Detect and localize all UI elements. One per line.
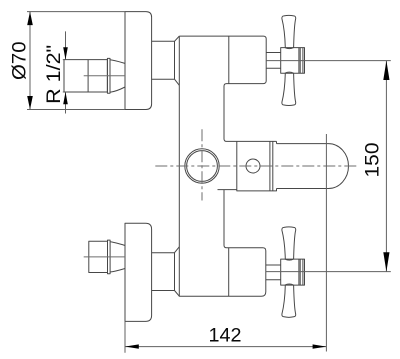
union tube bottom (behind flange) xyxy=(152,247,180,296)
hub spoke root arcs top xyxy=(285,48,294,74)
eccentric cone bottom xyxy=(110,242,125,246)
dimension 150 line xyxy=(385,61,387,272)
extension line top (O70, lower) xyxy=(27,109,125,111)
extension line 150 top xyxy=(266,60,391,62)
cross handle bottom, upper spoke xyxy=(282,227,296,259)
arrow 142 left xyxy=(125,344,139,348)
extension line 150 bottom xyxy=(266,271,391,273)
extension line top (O70, upper) xyxy=(27,11,125,13)
threaded nipple bottom xyxy=(89,241,108,272)
svg-text:Ø70: Ø70 xyxy=(9,41,31,80)
hub groove lines bottom xyxy=(299,259,303,285)
extension line 142 right xyxy=(325,134,327,352)
arrow 142 right xyxy=(313,344,327,348)
ball joint outer circle xyxy=(185,149,219,183)
spout barrel with domed end xyxy=(277,144,349,189)
arrow 150 up xyxy=(383,61,389,80)
nipple collar ring bottom xyxy=(108,240,111,274)
svg-text:142: 142 xyxy=(209,325,242,347)
dimension O70 line xyxy=(29,12,31,110)
arrow 150 down xyxy=(383,252,389,271)
main body outline xyxy=(179,36,276,296)
wall flange top (escutcheon, side view) xyxy=(125,12,152,110)
ball joint vertical centerline xyxy=(201,129,203,200)
extension line 142 left xyxy=(124,321,126,352)
svg-text:150: 150 xyxy=(362,142,384,177)
handle hub top xyxy=(281,48,305,74)
hub spoke root arcs bottom xyxy=(285,259,294,285)
cross handle top, lower spoke xyxy=(282,73,296,105)
ball joint inner circle xyxy=(187,151,218,182)
spout diverter block xyxy=(218,141,277,191)
body division line lower xyxy=(228,248,230,296)
nipple centerline bottom xyxy=(84,256,125,258)
valve stem bottom xyxy=(266,265,281,280)
nipple centerline top xyxy=(84,75,125,77)
cross handle bottom, lower spoke xyxy=(282,285,296,317)
dimension R1/2 lines xyxy=(63,31,66,113)
diverter small circle xyxy=(246,159,260,173)
nipple collar ring top xyxy=(107,58,110,93)
eccentric cone top xyxy=(110,60,125,64)
union tube top (behind flange) xyxy=(152,36,180,85)
threaded nipple R1/2 top xyxy=(64,60,107,92)
handle hub bottom xyxy=(281,259,305,285)
wall flange bottom xyxy=(125,223,152,321)
arrow R1/2 down xyxy=(63,47,68,59)
arrow R1/2 up xyxy=(63,92,68,104)
valve stem top xyxy=(266,53,281,69)
spout collar groove lines xyxy=(269,141,271,191)
svg-text:R 1/2": R 1/2" xyxy=(43,45,65,104)
cross handle top, upper spoke xyxy=(282,15,296,47)
spout horizontal centerline xyxy=(155,165,357,167)
arrow O70 down xyxy=(27,96,33,110)
nipple joint line xyxy=(87,60,89,92)
body division line upper xyxy=(228,36,230,84)
arrow O70 up xyxy=(27,12,33,26)
dimension 142 line xyxy=(125,346,326,348)
hub groove lines top xyxy=(299,48,303,74)
